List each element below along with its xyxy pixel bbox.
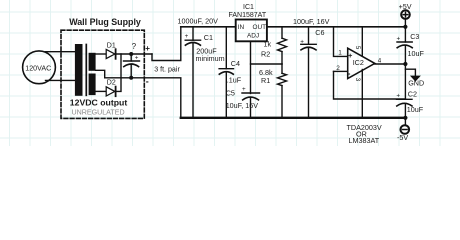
ground rail: [181, 117, 406, 119]
svg-text:-5V: -5V: [397, 133, 408, 142]
GND branch: [405, 69, 415, 76]
capacitor C1: [192, 27, 194, 40]
output node column lower: [404, 104, 406, 126]
pin 1 wire: [334, 27, 348, 57]
svg-text:2: 2: [336, 65, 340, 72]
op-amp IC2: [348, 48, 375, 78]
svg-text:+: +: [145, 44, 150, 53]
wall plug supply dashed box: [61, 30, 144, 118]
svg-text:+: +: [242, 86, 246, 93]
transformer T1 primary winding: [75, 44, 83, 96]
pin 2 feedback wire: [334, 71, 406, 99]
diode D2: [106, 87, 115, 96]
resistor R1 6.8k: [281, 64, 283, 73]
svg-text:1: 1: [338, 50, 342, 57]
transformer secondary winding upper: [89, 53, 96, 71]
svg-text:C6: C6: [315, 28, 324, 37]
capacitor ? (filter cap inside box): [130, 54, 132, 61]
ground symbol: [411, 76, 419, 81]
svg-text:UNREGULATED: UNREGULATED: [72, 108, 125, 116]
output node column upper: [404, 19, 406, 42]
svg-text:10uF: 10uF: [407, 105, 424, 114]
svg-text:IC1: IC1: [243, 4, 254, 11]
svg-text:1k: 1k: [264, 39, 272, 48]
capacitor C6: [308, 27, 310, 45]
junction node on - wire: [129, 76, 133, 80]
junction node on + wire: [129, 52, 133, 56]
svg-text:?: ?: [132, 42, 137, 51]
svg-text:C3: C3: [410, 32, 419, 41]
svg-text:D2: D2: [107, 80, 116, 87]
svg-text:C4: C4: [231, 59, 240, 68]
wire + output (3ft pair): [152, 27, 181, 61]
svg-text:12VDC output: 12VDC output: [70, 98, 128, 108]
svg-text:OUT: OUT: [253, 24, 267, 31]
main V+ rail to IC1: [181, 26, 236, 28]
junction dot bottom rail: [403, 116, 407, 120]
-5V terminal: [401, 125, 410, 134]
wire center tap: [96, 70, 105, 78]
wire ADJ pin: [251, 41, 283, 64]
pin 5 wire: [361, 27, 363, 56]
svg-text:10uF, 16V: 10uF, 16V: [226, 101, 259, 110]
svg-text:LM383AT: LM383AT: [349, 136, 380, 145]
svg-text:ADJ: ADJ: [247, 33, 259, 40]
svg-text:D1: D1: [107, 42, 116, 49]
svg-text:C1: C1: [204, 33, 213, 42]
capacitor C5 on ADJ: [250, 64, 252, 94]
IC1 regulator box: [236, 20, 267, 42]
transformer secondary winding lower: [89, 74, 96, 96]
wire bottom tap to D2: [96, 90, 107, 92]
svg-text:R1: R1: [261, 76, 270, 85]
svg-text:-: -: [146, 77, 149, 87]
wire D2 cathode up to + node: [116, 54, 121, 91]
output pin 4 wire: [375, 63, 406, 65]
pin 2 wire: [334, 70, 348, 72]
svg-text:+: +: [397, 36, 401, 43]
svg-text:minimum: minimum: [196, 54, 225, 63]
capacitor C3: [397, 41, 412, 43]
svg-text:Wall Plug Supply: Wall Plug Supply: [69, 17, 141, 27]
svg-text:100uF, 16V: 100uF, 16V: [293, 17, 330, 26]
svg-text:3 ft. pair: 3 ft. pair: [154, 66, 180, 74]
svg-text:IN: IN: [238, 24, 245, 31]
wire D1 cathode to + node: [116, 53, 152, 55]
svg-text:1000uF, 20V: 1000uF, 20V: [178, 17, 219, 26]
svg-text:C5: C5: [226, 89, 235, 98]
svg-text:IC2: IC2: [353, 58, 364, 67]
svg-text:R2: R2: [261, 50, 270, 59]
+5V terminal: [401, 10, 410, 19]
diode D1: [106, 49, 115, 58]
svg-text:FAN1587AT: FAN1587AT: [229, 12, 267, 19]
capacitor C2: [397, 98, 413, 100]
svg-text:+: +: [300, 38, 304, 45]
resistor R2 1k: [281, 27, 283, 38]
svg-text:120VAC: 120VAC: [25, 64, 51, 72]
AC source 120VAC: [23, 51, 56, 84]
svg-text:+5V: +5V: [399, 2, 412, 11]
svg-text:-: -: [348, 69, 351, 78]
wire top tap to D1: [96, 53, 107, 55]
transformer core: [85, 45, 87, 96]
wire AC top to transformer primary: [46, 51, 78, 53]
wire - output: [105, 78, 181, 118]
capacitor C4: [225, 27, 227, 69]
svg-text:C2: C2: [408, 89, 417, 98]
pin 3 wire: [361, 70, 363, 118]
svg-text:4: 4: [378, 58, 382, 65]
svg-text:10uF: 10uF: [408, 49, 425, 58]
svg-text:GND: GND: [408, 79, 424, 88]
svg-text:+: +: [185, 33, 189, 40]
svg-text:.1uF: .1uF: [227, 75, 242, 84]
output node column middle: [404, 46, 406, 99]
svg-text:+: +: [135, 54, 139, 61]
svg-text:+: +: [396, 93, 400, 100]
junction dot +5V rail: [403, 25, 407, 29]
wire AC bottom to transformer primary: [46, 79, 78, 81]
junction dot output: [403, 62, 407, 66]
wire IC1 OUT rail: [267, 26, 406, 28]
